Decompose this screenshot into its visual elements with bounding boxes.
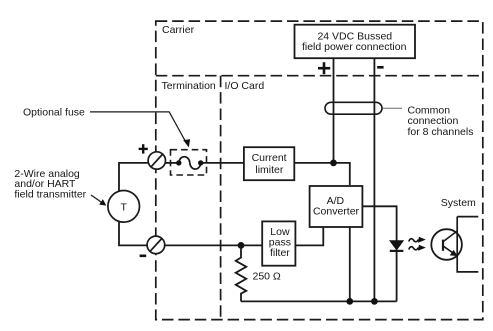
plus label at 24VDC: [318, 62, 330, 74]
junction dot at +bus / limiter: [330, 160, 337, 167]
label 2-wire transmitter: [14, 168, 86, 201]
svg-text:Converter: Converter: [313, 206, 360, 218]
plus sign at + terminal: [139, 144, 148, 153]
+ terminal circle: [148, 152, 165, 169]
light emission arrows: [409, 237, 426, 251]
wire: transmitter bottom to - terminal: [119, 222, 147, 246]
svg-text:Optional fuse: Optional fuse: [23, 106, 85, 118]
arrowhead transmitter: [99, 199, 106, 206]
LED diode: [389, 240, 404, 301]
wire: + power bus vertical: [333, 58, 335, 163]
svg-text:filter: filter: [270, 247, 290, 259]
junction dot resistor tap: [238, 242, 245, 249]
leader arrow to transmitter: [91, 195, 103, 203]
minus label at 24VDC: [377, 66, 383, 69]
transmitter T circle: [108, 191, 140, 223]
svg-text:T: T: [120, 202, 127, 214]
svg-text:field transmitter: field transmitter: [14, 188, 86, 200]
svg-text:field power connection: field power connection: [302, 41, 407, 53]
base bar: [442, 240, 444, 251]
fuse element: [176, 157, 203, 169]
junction dot -bus-rail: [371, 298, 378, 305]
collector line: [443, 231, 457, 242]
carrier dashed box: [156, 21, 483, 320]
svg-text:for 8 channels: for 8 channels: [408, 126, 474, 138]
phototransistor Q1: [431, 229, 462, 260]
svg-text:Current: Current: [252, 152, 287, 164]
svg-text:limiter: limiter: [255, 164, 284, 176]
fuse dashed box: [171, 150, 207, 175]
wire: transmitter top to + terminal: [119, 163, 148, 191]
system bracket leads: [457, 216, 478, 218]
termination / I/O card divider (vertical): [220, 76, 222, 320]
label Common connection for 8 channels: [408, 105, 474, 138]
low pass filter box: [262, 221, 295, 265]
common connection oval: [325, 102, 382, 114]
wire: fuse to current limiter: [201, 162, 243, 164]
wire: A/D bottom to ground rail: [349, 227, 351, 301]
wire: - terminal to low pass filter (bottom wire): [165, 244, 262, 246]
svg-text:Carrier: Carrier: [162, 24, 195, 36]
current limiter box: [244, 147, 294, 180]
carrier / card divider (horizontal): [156, 75, 483, 77]
arrowhead optional fuse: [183, 139, 190, 147]
wire: current limiter to A/D (via junction): [294, 163, 350, 185]
svg-text:I/O Card: I/O Card: [225, 80, 265, 92]
svg-text:Termination: Termination: [162, 80, 216, 92]
wire: low pass filter to A/D bottom: [295, 227, 323, 245]
leader line to common label: [383, 107, 403, 109]
ground rail (bottom wire): [241, 300, 397, 302]
wire: A/D output to LED: [362, 206, 396, 240]
minus sign at - terminal: [140, 255, 147, 258]
resistor 250 ohm: [236, 245, 247, 301]
- terminal circle: [147, 236, 165, 254]
24 VDC bussed field power connection box: [295, 25, 416, 59]
emitter line with arrow: [443, 246, 455, 254]
junction dot A/D-rail: [346, 298, 353, 305]
svg-text:250 Ω: 250 Ω: [253, 270, 281, 282]
wire: - power bus vertical: [373, 58, 375, 301]
wire: + terminal to fuse: [165, 162, 179, 164]
A/D converter box: [310, 186, 363, 227]
leader line optional fuse: [90, 112, 186, 143]
svg-text:System: System: [441, 197, 476, 209]
